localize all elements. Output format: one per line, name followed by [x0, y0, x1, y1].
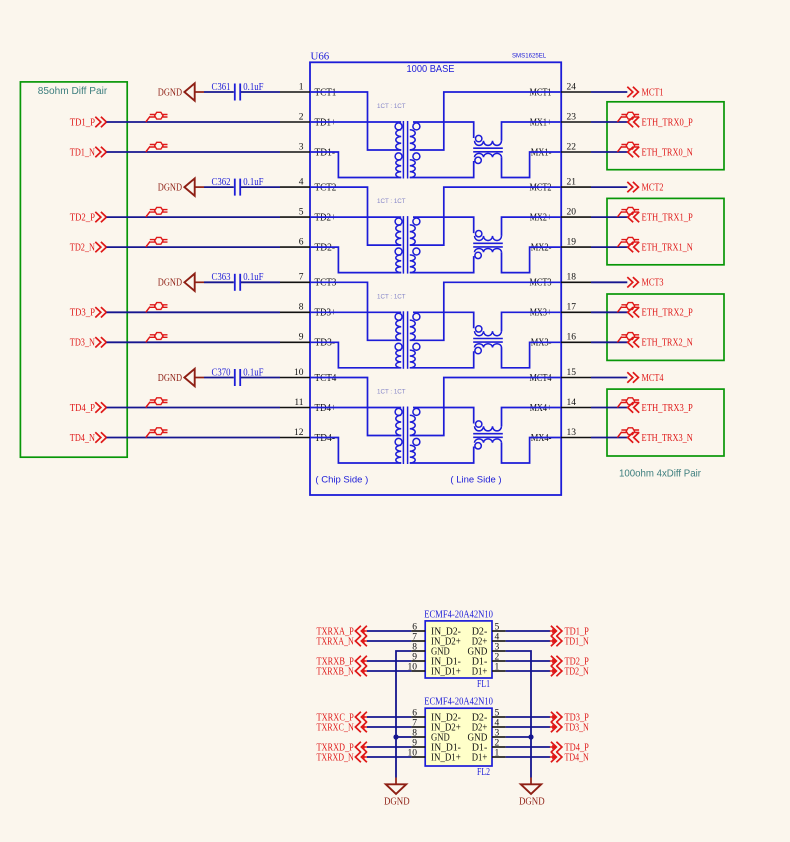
- svg-text:FL1: FL1: [477, 679, 490, 690]
- wire TCT3 to primary center tap: [310, 282, 401, 340]
- svg-text:3: 3: [495, 728, 500, 738]
- power port DGND (cap C363 row): [158, 274, 204, 291]
- svg-text:9: 9: [299, 333, 304, 343]
- wire pin 15 to port MCT4: [591, 377, 627, 379]
- svg-text:18: 18: [567, 273, 577, 283]
- svg-text:MCT3: MCT3: [530, 278, 552, 289]
- svg-text:ECMF4-20A42N10: ECMF4-20A42N10: [424, 609, 493, 620]
- svg-text:MCT4: MCT4: [642, 373, 664, 384]
- wire FL2 to TD4_N: [506, 756, 550, 758]
- wire C370 to pin 10: [241, 377, 280, 379]
- svg-text:C362: C362: [212, 177, 231, 188]
- svg-text:11: 11: [294, 398, 303, 408]
- FL2 pin 9 IN_D1-: [411, 738, 461, 753]
- wire TD1_P to pin: [107, 121, 281, 123]
- port MCT2: [627, 182, 663, 194]
- svg-text:TCT3: TCT3: [315, 278, 337, 289]
- wire secondary top to choke L2 in+: [413, 217, 474, 233]
- wire choke L4 out- to MX4-: [502, 438, 562, 464]
- wire choke L3 out+ to MX3+: [502, 312, 562, 331]
- port ETH_TRX0_P: [628, 117, 693, 129]
- wire TCT4 to primary center tap: [310, 378, 401, 436]
- port TD2_P: [70, 212, 107, 224]
- svg-text:C361: C361: [212, 82, 231, 93]
- port TD1_P: [550, 626, 589, 638]
- wire FL2 to TD3_P: [506, 716, 550, 718]
- wire secondary bottom to choke L1 in-: [410, 161, 474, 178]
- port ETH_TRX3_P: [628, 402, 693, 414]
- svg-text:TXRXC_N: TXRXC_N: [317, 722, 355, 733]
- wire C361 to pin 1: [241, 91, 280, 93]
- wire FL1 pin3 GND to DGND right: [506, 651, 531, 778]
- diff pair marker on ETH_TRX1_P: [617, 207, 639, 217]
- svg-text:2: 2: [299, 112, 304, 122]
- FL2 pin 10 IN_D1+: [408, 748, 462, 763]
- choke L3 bottom winding: [475, 344, 502, 354]
- diff pair marker on TD2_P: [146, 207, 168, 217]
- wire pin 18 to port MCT3: [591, 281, 627, 283]
- svg-text:MCT1: MCT1: [642, 87, 664, 98]
- svg-text:ETH_TRX2_P: ETH_TRX2_P: [642, 308, 694, 319]
- svg-text:TD4_P: TD4_P: [70, 403, 95, 414]
- svg-text:TCT4: TCT4: [315, 373, 337, 384]
- wire TXRXC_P to FL2: [367, 716, 411, 718]
- svg-text:16: 16: [567, 333, 577, 343]
- diff pair marker on ETH_TRX0_N: [617, 142, 639, 152]
- svg-text:20: 20: [567, 208, 577, 218]
- wire TD2_P to pin: [107, 216, 281, 218]
- svg-text:ETH_TRX3_N: ETH_TRX3_N: [642, 433, 694, 444]
- svg-text:DGND: DGND: [384, 796, 410, 807]
- svg-text:TCT2: TCT2: [315, 183, 337, 194]
- wire TD1- to primary bottom: [310, 152, 401, 178]
- svg-text:MX1-: MX1-: [531, 147, 552, 158]
- FL1 pin 1 D1+: [472, 662, 506, 677]
- FL1 pin 10 IN_D1+: [408, 662, 462, 677]
- choke L3 core: [473, 338, 503, 340]
- diff pair marker on ETH_TRX0_P: [617, 112, 639, 122]
- svg-text:1: 1: [495, 662, 500, 672]
- svg-text:TXRXB_N: TXRXB_N: [317, 666, 355, 677]
- wire choke L3 out- to MX3-: [502, 342, 562, 368]
- wire pin 21 to port MCT2: [591, 186, 627, 188]
- wire TD4+ to primary top: [310, 407, 401, 409]
- wire MCT4 to secondary center tap: [410, 378, 561, 436]
- svg-text:24: 24: [567, 82, 577, 92]
- svg-text:12: 12: [294, 428, 304, 438]
- svg-text:7: 7: [412, 718, 417, 728]
- FL1 pin 3 GND: [468, 642, 506, 657]
- wire TD2_N to pin: [107, 246, 281, 248]
- wire FL2 to TD4_P: [506, 746, 550, 748]
- svg-text:TD2-: TD2-: [315, 243, 336, 254]
- power port DGND (cap C361 row): [158, 83, 204, 100]
- wire pin to port ETH_TRX0_N: [591, 151, 628, 153]
- port ETH_TRX1_N: [628, 242, 694, 254]
- svg-text:6: 6: [412, 622, 417, 632]
- port MCT4: [627, 372, 663, 384]
- port ETH_TRX1_P: [628, 212, 693, 224]
- wire pin to port ETH_TRX0_P: [591, 121, 628, 123]
- svg-text:TD1_N: TD1_N: [565, 636, 590, 647]
- svg-text:1CT : 1CT: 1CT : 1CT: [377, 198, 406, 205]
- choke L1 core: [473, 147, 503, 149]
- svg-text:TD3_N: TD3_N: [565, 722, 590, 733]
- svg-text:TD1-: TD1-: [315, 147, 336, 158]
- transformer T3 secondary winding: [410, 313, 420, 368]
- port TXRXC_N: [317, 722, 368, 734]
- FL2 pin 1 D1+: [472, 748, 506, 763]
- transformer T2 secondary winding: [410, 218, 420, 273]
- port TXRXB_P: [317, 656, 368, 668]
- wire TD3+ to primary top: [310, 311, 401, 313]
- svg-text:14: 14: [567, 398, 577, 408]
- svg-text:MCT2: MCT2: [642, 183, 664, 194]
- FL2 pin 2 D1-: [472, 738, 506, 753]
- svg-text:MX1+: MX1+: [530, 117, 552, 128]
- diff pair marker on TD4_P: [146, 398, 168, 408]
- wire secondary top to choke L3 in+: [413, 312, 474, 328]
- svg-text:MX3+: MX3+: [530, 308, 552, 319]
- wire TXRXC_N to FL2: [367, 726, 411, 728]
- wire FL1 to TD1_N: [506, 640, 550, 642]
- svg-text:1000 BASE: 1000 BASE: [407, 64, 455, 75]
- svg-text:19: 19: [567, 238, 577, 248]
- FL2 pin 7 IN_D2+: [411, 718, 461, 733]
- wire TD3_N to pin: [107, 341, 281, 343]
- svg-text:TD4-: TD4-: [315, 433, 336, 444]
- svg-text:TD1_P: TD1_P: [70, 117, 95, 128]
- FL1 pin 2 D1-: [472, 652, 506, 667]
- wire FL2 pin8 GND to net: [396, 736, 411, 738]
- wire FL1 pin8 GND to DGND left: [396, 651, 411, 778]
- svg-text:9: 9: [412, 738, 417, 748]
- power port DGND (cap C362 row): [158, 178, 204, 195]
- svg-text:TD2_P: TD2_P: [70, 213, 95, 224]
- svg-text:DGND: DGND: [158, 182, 182, 193]
- svg-text:( Line Side ): ( Line Side ): [450, 474, 501, 485]
- wire C362 to pin 4: [241, 186, 280, 188]
- transformer T1 secondary winding: [410, 123, 420, 178]
- svg-text:ETH_TRX2_N: ETH_TRX2_N: [642, 338, 694, 349]
- svg-text:TD4+: TD4+: [315, 403, 337, 414]
- svg-text:ETH_TRX1_P: ETH_TRX1_P: [642, 213, 694, 224]
- svg-text:8: 8: [412, 642, 417, 652]
- port TD1_P: [70, 117, 107, 129]
- transformer T3 primary winding: [395, 313, 402, 368]
- wire DGND to C361: [204, 91, 234, 93]
- wire TD1_N to pin: [107, 151, 281, 153]
- port TXRXD_N: [317, 752, 368, 764]
- wire secondary bottom to choke L2 in-: [410, 256, 474, 273]
- transformer T4 primary winding: [395, 408, 402, 463]
- wire pin to port ETH_TRX3_P: [591, 407, 628, 409]
- choke L1 bottom winding: [475, 153, 502, 163]
- wire FL2 to TD3_N: [506, 726, 550, 728]
- wire pin to port ETH_TRX2_N: [591, 341, 628, 343]
- port TD4_N: [550, 752, 590, 764]
- chip U66 body: [310, 62, 561, 495]
- svg-text:13: 13: [567, 428, 577, 438]
- wire choke L1 out+ to MX1+: [502, 122, 562, 141]
- svg-text:TD4_N: TD4_N: [70, 433, 96, 444]
- choke L2 bottom winding: [475, 249, 502, 259]
- svg-text:D1+: D1+: [472, 666, 488, 677]
- power port DGND (cap C370 row): [158, 369, 204, 386]
- wire MCT1 to secondary center tap: [410, 92, 561, 150]
- transformer T2 core: [402, 216, 404, 274]
- diff pair marker on ETH_TRX3_P: [617, 398, 639, 408]
- wire pin to port ETH_TRX1_N: [591, 246, 628, 248]
- FL2 pin 4 D2+: [472, 718, 506, 733]
- wire MCT3 to secondary center tap: [410, 282, 561, 340]
- wire pin to port ETH_TRX3_N: [591, 437, 628, 439]
- svg-text:TD2_N: TD2_N: [565, 666, 590, 677]
- svg-text:4: 4: [299, 178, 304, 188]
- transformer T4 secondary winding: [410, 408, 420, 463]
- wire TXRXA_N to FL1: [367, 640, 411, 642]
- diff pair marker on TD4_N: [146, 428, 168, 438]
- wire pin 24 to port MCT1: [591, 91, 627, 93]
- capacitor C362 0.1uF: [212, 177, 264, 196]
- transformer T3 core: [402, 311, 404, 369]
- port ETH_TRX2_N: [628, 337, 694, 349]
- wire TD3_P to pin: [107, 311, 281, 313]
- wire FL2 pin3 GND to net: [506, 736, 531, 738]
- svg-text:TXRXA_N: TXRXA_N: [317, 636, 355, 647]
- svg-text:1: 1: [495, 748, 500, 758]
- svg-text:4: 4: [495, 632, 500, 642]
- wire pin to port ETH_TRX1_P: [591, 216, 628, 218]
- choke L3 top winding: [475, 326, 502, 336]
- svg-text:TXRXD_N: TXRXD_N: [317, 752, 355, 763]
- svg-text:MX2+: MX2+: [530, 213, 552, 224]
- wire secondary top to choke L4 in+: [413, 408, 474, 424]
- FL2 pin 3 GND: [468, 728, 506, 743]
- wire TXRXA_P to FL1: [367, 630, 411, 632]
- wire TD3- to primary bottom: [310, 342, 401, 368]
- svg-text:SMS1625EL: SMS1625EL: [512, 53, 546, 60]
- diff pair marker on TD3_N: [146, 333, 168, 343]
- port TD3_P: [70, 307, 107, 319]
- svg-text:22: 22: [567, 142, 577, 152]
- svg-text:17: 17: [567, 303, 577, 313]
- svg-text:FL2: FL2: [477, 767, 490, 778]
- power port DGND bottom left: [384, 778, 410, 808]
- svg-text:6: 6: [412, 708, 417, 718]
- wire FL1 to TD1_P: [506, 630, 550, 632]
- svg-text:IN_D1+: IN_D1+: [431, 752, 461, 763]
- wire choke L2 out+ to MX2+: [502, 217, 562, 236]
- choke L4 core: [473, 433, 503, 435]
- port ETH_TRX0_N: [628, 147, 694, 159]
- diff pair marker on ETH_TRX1_N: [617, 237, 639, 247]
- FL1 pin 8 GND: [411, 642, 449, 657]
- svg-text:5: 5: [495, 708, 500, 718]
- svg-text:7: 7: [412, 632, 417, 642]
- svg-text:1: 1: [299, 82, 304, 92]
- svg-text:7: 7: [299, 273, 304, 283]
- port ETH_TRX3_N: [628, 432, 694, 444]
- svg-text:5: 5: [299, 208, 304, 218]
- svg-text:2: 2: [495, 738, 500, 748]
- filter FL1 ECMF4-20A42N10 body: [425, 621, 492, 678]
- svg-text:5: 5: [495, 622, 500, 632]
- svg-text:MCT2: MCT2: [530, 183, 552, 194]
- diff pair marker on ETH_TRX3_N: [617, 428, 639, 438]
- wire DGND to C370: [204, 377, 234, 379]
- power port DGND bottom right: [519, 778, 545, 808]
- wire DGND to C362: [204, 186, 234, 188]
- port MCT3: [627, 277, 663, 289]
- choke L2 top winding: [475, 231, 502, 241]
- wire TD4_N to pin: [107, 437, 281, 439]
- wire FL1 to TD2_N: [506, 670, 550, 672]
- wire secondary bottom to choke L4 in-: [410, 447, 474, 464]
- wire choke L2 out- to MX2-: [502, 247, 562, 273]
- junction right GND net: [528, 734, 533, 739]
- svg-text:MX3-: MX3-: [531, 338, 552, 349]
- wire TD2+ to primary top: [310, 216, 401, 218]
- svg-text:C363: C363: [212, 272, 231, 283]
- svg-text:MCT4: MCT4: [530, 373, 552, 384]
- wire C363 to pin 7: [241, 281, 280, 283]
- svg-text:15: 15: [567, 368, 577, 378]
- svg-text:TD4_N: TD4_N: [565, 752, 590, 763]
- svg-text:DGND: DGND: [158, 278, 182, 289]
- svg-text:21: 21: [567, 178, 577, 188]
- svg-text:3: 3: [495, 642, 500, 652]
- svg-text:TD1_N: TD1_N: [70, 147, 96, 158]
- port TD2_P: [550, 656, 589, 668]
- svg-text:1CT : 1CT: 1CT : 1CT: [377, 389, 406, 396]
- svg-text:TD3_P: TD3_P: [70, 308, 95, 319]
- port TXRXB_N: [317, 666, 368, 678]
- wire DGND to C363: [204, 281, 234, 283]
- svg-text:( Chip Side ): ( Chip Side ): [315, 474, 368, 485]
- svg-text:ECMF4-20A42N10: ECMF4-20A42N10: [424, 697, 493, 708]
- svg-text:9: 9: [412, 652, 417, 662]
- port TD4_P: [550, 742, 589, 754]
- capacitor C361 0.1uF: [212, 82, 264, 101]
- svg-text:2: 2: [495, 652, 500, 662]
- svg-text:100ohm 4xDiff Pair: 100ohm 4xDiff Pair: [619, 468, 702, 479]
- svg-text:1CT : 1CT: 1CT : 1CT: [377, 103, 406, 110]
- svg-text:MX4+: MX4+: [530, 403, 552, 414]
- svg-text:ETH_TRX0_P: ETH_TRX0_P: [642, 117, 694, 128]
- diff pair marker on TD1_P: [146, 112, 168, 122]
- FL1 pin 7 IN_D2+: [411, 632, 461, 647]
- port TD3_N: [550, 722, 590, 734]
- right diff-pair box 1: [607, 198, 724, 264]
- choke L2 core: [473, 242, 503, 244]
- transformer T1 primary winding: [395, 123, 402, 178]
- svg-text:3: 3: [299, 142, 304, 152]
- port TXRXD_P: [317, 742, 368, 754]
- svg-text:TD1+: TD1+: [315, 117, 337, 128]
- port MCT1: [627, 87, 663, 99]
- port TD1_N: [70, 147, 107, 159]
- svg-text:D1+: D1+: [472, 752, 488, 763]
- choke L1 top winding: [475, 135, 502, 145]
- wire choke L1 out- to MX1-: [502, 152, 562, 178]
- port TD4_P: [70, 402, 107, 414]
- capacitor C370 0.1uF: [212, 367, 264, 386]
- wire TD4- to primary bottom: [310, 438, 401, 464]
- diff pair marker on TD1_N: [146, 142, 168, 152]
- port TD3_N: [70, 337, 107, 349]
- wire secondary bottom to choke L3 in-: [410, 351, 474, 368]
- diff pair marker on ETH_TRX2_N: [617, 333, 639, 343]
- left diff-pair box (85ohm): [20, 82, 127, 457]
- transformer T1 core: [402, 121, 404, 179]
- wire TD4_P to pin: [107, 407, 281, 409]
- svg-text:TD3_N: TD3_N: [70, 338, 96, 349]
- port TD2_N: [550, 666, 590, 678]
- transformer T2 primary winding: [395, 218, 402, 273]
- FL1 pin 4 D2+: [472, 632, 506, 647]
- port TXRXC_P: [317, 712, 368, 724]
- port TD4_N: [70, 432, 107, 444]
- svg-text:TD2_N: TD2_N: [70, 243, 96, 254]
- right diff-pair box 2: [607, 294, 724, 360]
- transformer T4 core: [402, 407, 404, 465]
- port TD3_P: [550, 712, 589, 724]
- svg-text:IN_D1+: IN_D1+: [431, 666, 461, 677]
- svg-text:U66: U66: [311, 52, 330, 63]
- svg-text:TD3+: TD3+: [315, 308, 337, 319]
- FL2 pin 8 GND: [411, 728, 449, 743]
- svg-text:ETH_TRX0_N: ETH_TRX0_N: [642, 147, 694, 158]
- wire choke L4 out+ to MX4+: [502, 408, 562, 427]
- diff pair marker on TD3_P: [146, 303, 168, 313]
- capacitor C363 0.1uF: [212, 272, 264, 291]
- svg-text:85ohm Diff Pair: 85ohm Diff Pair: [38, 86, 108, 97]
- svg-text:DGND: DGND: [158, 373, 182, 384]
- wire pin to port ETH_TRX2_P: [591, 311, 628, 313]
- svg-text:6: 6: [299, 238, 304, 248]
- port TD2_N: [70, 242, 107, 254]
- wire TD2- to primary bottom: [310, 247, 401, 273]
- svg-text:8: 8: [412, 728, 417, 738]
- FL2 pin 6 IN_D2-: [411, 708, 461, 723]
- svg-text:TD2+: TD2+: [315, 213, 337, 224]
- wire TCT1 to primary center tap: [310, 92, 401, 150]
- right diff-pair box 3: [607, 389, 724, 456]
- svg-text:1CT : 1CT: 1CT : 1CT: [377, 293, 406, 300]
- svg-text:10: 10: [294, 368, 304, 378]
- svg-text:4: 4: [495, 718, 500, 728]
- svg-text:MCT1: MCT1: [530, 87, 552, 98]
- diff pair marker on TD2_N: [146, 237, 168, 247]
- FL1 pin 5 D2-: [472, 622, 506, 637]
- svg-text:DGND: DGND: [519, 796, 545, 807]
- port TD1_N: [550, 636, 590, 648]
- svg-text:TD3-: TD3-: [315, 338, 336, 349]
- svg-text:TCT1: TCT1: [315, 87, 337, 98]
- svg-text:8: 8: [299, 303, 304, 313]
- filter FL2 ECMF4-20A42N10 body: [425, 708, 492, 766]
- wire TXRXD_P to FL2: [367, 746, 411, 748]
- wire TD1+ to primary top: [310, 121, 401, 123]
- right diff-pair box 0: [607, 102, 724, 170]
- svg-text:MX4-: MX4-: [531, 433, 552, 444]
- FL1 pin 6 IN_D2-: [411, 622, 461, 637]
- svg-text:ETH_TRX1_N: ETH_TRX1_N: [642, 243, 694, 254]
- wire TCT2 to primary center tap: [310, 187, 401, 245]
- choke L4 top winding: [475, 421, 502, 431]
- svg-text:MX2-: MX2-: [531, 243, 552, 254]
